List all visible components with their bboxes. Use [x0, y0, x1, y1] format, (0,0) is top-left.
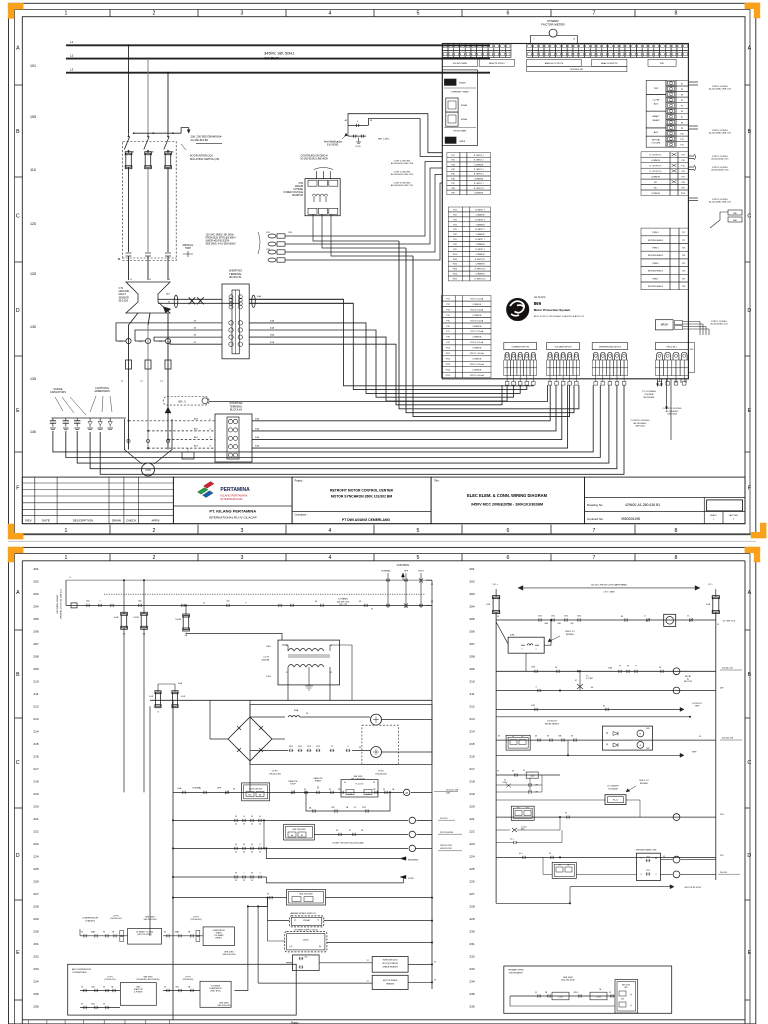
svg-text:7: 7 [593, 555, 596, 561]
svg-text:P56: P56 [453, 234, 456, 236]
multilin 869 box start [242, 783, 270, 801]
svg-text:W: W [168, 302, 170, 304]
svg-text:A1-260-616A2 LINE #209: A1-260-616A2 LINE #209 [300, 158, 328, 161]
svg-text:2-124: 2-124 [558, 996, 563, 998]
svg-text:(MOTOR SYNC): (MOTOR SYNC) [137, 934, 151, 936]
svg-text:COMMON: COMMON [476, 274, 485, 276]
CT ground-fault sensor funnel [126, 282, 170, 313]
surge arrester bus [52, 417, 127, 419]
primary instrument box [504, 966, 672, 1013]
svg-text:F12: F12 [526, 808, 529, 810]
svg-text:8: 8 [675, 11, 678, 17]
svg-text:219: 219 [33, 792, 38, 796]
surge capacitor bank [52, 418, 54, 421]
coil rung 222 [409, 817, 415, 823]
svg-text:221: 221 [469, 817, 474, 821]
svg-text:219: 219 [469, 792, 474, 796]
svg-text:216: 216 [469, 755, 474, 759]
svg-text:P15: P15 [681, 166, 684, 168]
node bus tap L3 [167, 72, 169, 74]
op-amp U1 relay 869 outline [442, 44, 688, 379]
svg-text:A: A [16, 590, 20, 596]
bridge rectifier BR1 [228, 717, 272, 761]
svg-text:P10: P10 [680, 134, 683, 136]
svg-text:TRIP: TRIP [185, 246, 191, 250]
node bus tap L2 [147, 58, 149, 60]
relay left terminal group 1 [447, 153, 460, 158]
svg-text:LOADING: LOADING [85, 919, 95, 922]
transformer CVT2 box [278, 640, 340, 685]
svg-text:E: E [16, 950, 20, 956]
svg-text:PSU: PSU [660, 63, 665, 65]
svg-text:231: 231 [33, 942, 38, 946]
instrument wiring row [510, 995, 615, 997]
svg-text:208,212,228,: 208,212,228, [440, 845, 453, 847]
svg-text:A: A [748, 45, 752, 51]
svg-text:228: 228 [469, 905, 474, 909]
svg-text:47A: 47A [270, 341, 274, 344]
seal-in sub rung [306, 792, 390, 811]
svg-text:P59: P59 [453, 249, 456, 251]
svg-text:P57: P57 [453, 239, 456, 241]
svg-text:RTD 5 / DCmA: RTD 5 / DCmA [471, 319, 484, 322]
svg-text:A1-260-6H8O: A1-260-6H8O [666, 410, 679, 413]
svg-text:P1: P1 [681, 83, 683, 85]
terminal VS2 [268, 242, 276, 246]
svg-text:RELAY RESET: RELAY RESET [545, 722, 560, 725]
svg-text:BLOCK #1: BLOCK #1 [230, 276, 243, 279]
svg-text:27M: 27M [299, 183, 304, 185]
svg-text:P25: P25 [682, 263, 685, 265]
svg-text:P711: P711 [446, 353, 450, 355]
svg-text:7: 7 [593, 528, 596, 534]
svg-text:VOLTAGE INPUTS: VOLTAGE INPUTS [555, 345, 573, 348]
wires VS to relay group1 [285, 162, 442, 237]
svg-text:0-14: 0-14 [366, 793, 369, 795]
air compressor convertible box [68, 964, 297, 1015]
wire fuse to contactor [128, 167, 130, 252]
multilin869 box row227 [287, 889, 326, 905]
svg-text:D: D [16, 853, 20, 859]
svg-text:RETROFIT MOTOR CONTROL CENTER: RETROFIT MOTOR CONTROL CENTER [330, 489, 394, 493]
svg-text:20A, 200 SEE DRAWING#: 20A, 200 SEE DRAWING# [191, 135, 222, 139]
svg-text:R. INPUT 8: R. INPUT 8 [474, 188, 484, 190]
rung 209 [496, 670, 716, 672]
svg-text:1: 1 [65, 555, 68, 561]
svg-text:LED425,236: LED425,236 [440, 848, 452, 850]
relay right output group B [641, 152, 670, 158]
svg-text:Contract No: Contract No [587, 517, 603, 521]
wire to transformer [186, 633, 282, 641]
svg-text:LOA: LOA [177, 787, 182, 790]
svg-text:REMOTE: REMOTE [289, 781, 299, 783]
svg-text:101: 101 [30, 64, 36, 68]
heater terminal box [187, 448, 189, 452]
svg-text:(TYP): (TYP) [113, 916, 119, 918]
svg-text:P6: P6 [344, 782, 346, 784]
svg-text:206,209,218: 206,209,218 [722, 738, 734, 740]
isolating switch dashed enclosure [123, 142, 177, 261]
svg-text:COMMON: COMMON [472, 326, 481, 328]
svg-text:H6: H6 [259, 794, 261, 796]
svg-text:P52: P52 [453, 214, 456, 216]
rail3 components [71, 603, 77, 608]
svg-text:DIVIDER: DIVIDER [645, 394, 654, 396]
svg-text:50A: 50A [257, 295, 261, 298]
svg-text:COMMON: COMMON [474, 178, 483, 180]
svg-text:260,201: 260,201 [720, 872, 728, 874]
svg-text:16: 16 [251, 852, 253, 854]
svg-text:P515: P515 [453, 279, 457, 281]
svg-text:D: D [747, 308, 751, 314]
svg-text:CKT #18/M: CKT #18/M [603, 592, 614, 594]
rung 224-225 dresser rand [496, 856, 716, 858]
svg-text:3: 3 [241, 528, 244, 534]
svg-text:P37: P37 [451, 183, 454, 185]
svg-text:R. OUTPUT 2: R. OUTPUT 2 [650, 155, 662, 157]
border frame band [15, 10, 751, 534]
running indicator branch [266, 848, 400, 858]
svg-text:NET 1-SEC.: NET 1-SEC. [378, 139, 390, 141]
svg-text:AC BUS: AC BUS [264, 55, 279, 60]
svg-text:NORMAL: NORMAL [193, 787, 203, 790]
relay right output group A [666, 80, 676, 86]
svg-text:C: C [747, 213, 751, 219]
svg-text:205: 205 [469, 617, 474, 621]
svg-text:TO PANEL: TO PANEL [338, 598, 349, 601]
svg-text:140: 140 [30, 430, 36, 434]
svg-text:E: E [748, 408, 752, 414]
wires UV monitor bottom [313, 214, 399, 241]
svg-text:J: J [260, 872, 261, 874]
svg-text:TEST: TEST [418, 571, 424, 573]
wire airpax to right rail [324, 920, 432, 922]
svg-text:46A: 46A [270, 334, 274, 337]
wire L2 drop [147, 59, 149, 134]
under-voltage monitor 27M [305, 179, 340, 216]
svg-text:CONVERTIBLE: CONVERTIBLE [72, 972, 87, 974]
svg-text:120: 120 [30, 222, 36, 226]
svg-text:P712: P712 [446, 359, 450, 361]
svg-text:REMOTE RTD/IO: REMOTE RTD/IO [489, 63, 505, 65]
svg-text:233: 233 [33, 967, 38, 971]
wire control rail 3 [66, 604, 432, 606]
svg-text:H5: H5 [301, 835, 303, 837]
coil rung 211 [673, 687, 680, 694]
wire left rails page2 [123, 628, 125, 793]
wire 50s to heater1 [319, 962, 372, 964]
svg-text:DRESSER RAND / BM: DRESSER RAND / BM [636, 849, 657, 852]
svg-text:COMMON: COMMON [472, 315, 481, 317]
svg-text:BLK: BLK [194, 437, 199, 439]
svg-text:234: 234 [469, 980, 474, 984]
svg-text:#A1-200-614G: #A1-200-614G [143, 918, 157, 921]
wire 24vdc to right rail [327, 942, 432, 944]
svg-text:OFF: OFF [217, 788, 222, 790]
current transformer T2 [145, 360, 151, 369]
svg-text:ISOLATING SWITCH (IS): ISOLATING SWITCH (IS) [190, 157, 220, 161]
svg-text:230: 230 [469, 930, 474, 934]
svg-text:E: E [16, 408, 20, 414]
svg-text:226: 226 [33, 880, 38, 884]
svg-text:230: 230 [33, 930, 38, 934]
svg-text:P17: P17 [681, 177, 684, 179]
svg-text:E3LAN: E3LAN [461, 104, 468, 107]
svg-text:R. INPUT 7: R. INPUT 7 [475, 239, 485, 241]
svg-text:236: 236 [469, 1005, 474, 1009]
arrow on funnel [163, 307, 171, 314]
terminal VS1 [268, 234, 276, 238]
svg-text:235: 235 [33, 992, 38, 996]
svg-text:COMMON: COMMON [472, 359, 481, 361]
svg-text:43: 43 [663, 856, 665, 858]
GE multilin logo [507, 298, 529, 320]
svg-text:MULTILIN 869: MULTILIN 869 [249, 789, 263, 791]
svg-text:LINE 4022: LINE 4022 [635, 426, 646, 428]
svg-text:ELEC ELEM. & CONN. WIRING DIAG: ELEC ELEM. & CONN. WIRING DIAGRAM [467, 493, 548, 498]
svg-text:DOOR INTERLOCK: DOOR INTERLOCK [190, 154, 214, 158]
svg-text:R. OUTPUT 4: R. OUTPUT 4 [650, 171, 662, 173]
svg-text:223: 223 [469, 842, 474, 846]
svg-text:INTERNASIONAL: INTERNASIONAL [220, 497, 243, 501]
svg-text:M: M [359, 601, 361, 603]
rung 214-215 multilin rio [496, 739, 716, 741]
relay modbus sub strip [527, 66, 627, 71]
svg-text:125: 125 [30, 272, 36, 276]
svg-text:CR4: CR4 [646, 856, 649, 858]
svg-text:52A: 52A [178, 682, 182, 685]
page separator line [8, 540, 756, 542]
svg-text:B: B [16, 672, 20, 678]
svg-text:215,225: 215,225 [440, 818, 448, 820]
svg-text:P32: P32 [451, 160, 454, 162]
svg-text:P72: P72 [446, 304, 449, 306]
lightning arrester bank [89, 418, 91, 422]
svg-text:SPACE HEATER: SPACE HEATER [383, 965, 399, 968]
svg-text:P4: P4 [681, 100, 683, 102]
svg-text:UNDER-VOLTAGE: UNDER-VOLTAGE [284, 191, 304, 194]
svg-text:P27: P27 [682, 278, 685, 280]
svg-text:PT DWI AGUNG CEMERLANG: PT DWI AGUNG CEMERLANG [342, 518, 390, 522]
svg-text:225: 225 [469, 867, 474, 871]
svg-text:PWM 5: PWM 5 [652, 248, 658, 250]
svg-text:LOCKOUT: LOCKOUT [547, 721, 558, 723]
svg-text:224: 224 [469, 855, 474, 859]
svg-text:SEE DWG: SEE DWG [563, 977, 573, 979]
svg-text:ANALOG INPUTS: ANALOG INPUTS [601, 62, 618, 65]
svg-text:236: 236 [33, 1005, 38, 1009]
svg-text:A: A [748, 590, 752, 596]
svg-text:A51-260-614F: A51-260-614F [561, 979, 575, 982]
svg-text:6: 6 [507, 555, 510, 561]
svg-text:42 READY TO LOA: 42 READY TO LOA [136, 930, 153, 933]
svg-text:LAST SHT: LAST SHT [729, 514, 739, 517]
svg-text:P51: P51 [453, 210, 456, 212]
svg-text:220: 220 [469, 805, 474, 809]
relay right pwm group C [641, 228, 670, 236]
svg-text:AIRPAX SPEED SWITCH: AIRPAX SPEED SWITCH [290, 912, 316, 915]
wire rail drop right [431, 580, 433, 605]
svg-text:SHEET: SHEET [710, 515, 717, 517]
svg-text:COMMON: COMMON [476, 224, 485, 226]
svg-text:B: B [748, 129, 752, 135]
svg-text:206: 206 [33, 630, 38, 634]
relay top label cells [442, 59, 477, 66]
svg-text:2: 2 [153, 555, 156, 561]
svg-text:#A1-200-614G: #A1-200-614G [217, 1004, 231, 1007]
svg-text:201: 201 [33, 567, 38, 571]
svg-text:ETHERNET / FIBER: ETHERNET / FIBER [451, 91, 469, 93]
svg-text:FIELD 86-1: FIELD 86-1 [667, 346, 678, 348]
svg-text:COMMON: COMMON [474, 193, 483, 195]
svg-text:VIRTUAL: VIRTUAL [652, 139, 661, 142]
svg-text:(TYP): (TYP) [378, 771, 384, 773]
svg-text:P78: P78 [446, 337, 449, 339]
wire phase drops below CT [129, 313, 139, 325]
rung 227 multilin [173, 897, 287, 899]
svg-text:P19: P19 [681, 187, 684, 189]
svg-text:CVT2: CVT2 [263, 657, 269, 659]
wire fuse to contactor [167, 167, 169, 252]
svg-text:COMMON: COMMON [472, 304, 481, 306]
svg-text:229: 229 [33, 917, 38, 921]
svg-text:6: 6 [641, 874, 642, 876]
svg-text:P76: P76 [446, 326, 449, 328]
leader lines to devices [55, 397, 86, 415]
fuse 4-GB [123, 580, 125, 614]
svg-text:222: 222 [33, 830, 38, 834]
svg-text:LOR: LOR [531, 705, 536, 707]
svg-text:P511: P511 [453, 259, 457, 261]
svg-text:COMMON: COMMON [651, 193, 660, 195]
svg-text:P5: P5 [681, 106, 683, 108]
rung 217 stub [567, 740, 569, 755]
svg-text:PERTAMINA: PERTAMINA [220, 487, 250, 493]
svg-text:P33: P33 [451, 164, 454, 166]
rung 212 lockout [496, 708, 680, 710]
dresser box [636, 853, 660, 880]
svg-text:FIELD TO: FIELD TO [639, 780, 649, 782]
svg-text:204: 204 [33, 605, 38, 609]
svg-text:STOP: STOP [408, 878, 414, 880]
wire row 227 to right rail [326, 897, 433, 899]
compressor row 2 [163, 990, 200, 992]
svg-text:COMMON: COMMON [651, 177, 660, 179]
wire 52A rung [150, 699, 432, 701]
svg-text:ANALOG OUTPUTS: ANALOG OUTPUTS [545, 62, 564, 65]
transformer CVT2 windings [288, 649, 324, 652]
svg-text:R. INPUT 15: R. INPUT 15 [475, 279, 486, 281]
svg-text:3: 3 [241, 555, 244, 561]
wires MRZM exits [683, 321, 701, 323]
svg-text:5: 5 [641, 858, 642, 860]
svg-text:235: 235 [469, 992, 474, 996]
svg-text:DC UNDER: DC UNDER [608, 786, 619, 788]
svg-text:A1-260-616B2 #216: A1-260-616B2 #216 [712, 169, 729, 172]
relay coil circle 2 [371, 747, 382, 758]
svg-text:1: 1 [536, 649, 537, 651]
corner mark page1 bottom-right [751, 523, 767, 539]
svg-text:DIFFERENTIAL INPUTS: DIFFERENTIAL INPUTS [599, 345, 622, 348]
svg-text:R. INPUT 5: R. INPUT 5 [475, 229, 485, 231]
relay bottom differential inputs group [592, 343, 627, 350]
svg-text:P54: P54 [453, 224, 456, 226]
svg-text:P31: P31 [451, 155, 454, 157]
svg-text:R. INPUT 5: R. INPUT 5 [474, 174, 484, 176]
svg-text:NORMAL: NORMAL [381, 570, 391, 573]
svg-text:222: 222 [469, 830, 474, 834]
svg-text:19: 19 [243, 880, 245, 882]
wires CT donuts to STB1 [116, 323, 222, 341]
svg-text:L3: L3 [70, 67, 74, 71]
wire dashed interlock link [123, 257, 177, 259]
svg-text:AUX: AUX [654, 131, 659, 134]
svg-text:A1-260-616B2 LINE #220: A1-260-616B2 LINE #220 [709, 132, 731, 135]
svg-text:20: 20 [235, 880, 237, 882]
corner mark page2 top-right [745, 547, 761, 563]
svg-text:P715: P715 [446, 375, 450, 377]
shorting terminal block #1 [222, 284, 249, 359]
svg-text:SEE DWG: SEE DWG [219, 1003, 229, 1005]
svg-text:P513: P513 [453, 269, 457, 271]
svg-text:#A1-200-614G: #A1-200-614G [222, 953, 236, 956]
svg-text:B: B [748, 672, 752, 678]
svg-text:66: 66 [591, 687, 593, 689]
svg-text:MONITOR: MONITOR [292, 195, 303, 197]
heater label box 1 [372, 957, 408, 973]
svg-text:201: 201 [469, 567, 474, 571]
svg-text:CONTROL: CONTROL [397, 563, 410, 567]
svg-text:TRIP: TRIP [695, 706, 700, 708]
svg-text:PRIMARY PM50: PRIMARY PM50 [508, 969, 524, 972]
svg-text:CKT #12: CKT #12 [339, 604, 348, 606]
coil rung 223 [409, 831, 415, 837]
lubricator box [203, 927, 234, 946]
svg-text:FLASH: FLASH [459, 82, 466, 85]
svg-text:DIG.IN POWER: DIG.IN POWER [453, 63, 468, 65]
wire bundle UV drops to voltage inputs [399, 241, 579, 409]
svg-text:P7: P7 [681, 117, 683, 119]
svg-text:P12: P12 [680, 145, 683, 147]
svg-text:MULTILIN 869: MULTILIN 869 [293, 829, 307, 831]
svg-text:2-5B: 2-5B [486, 604, 491, 606]
svg-text:C: C [16, 760, 20, 766]
svg-text:P73: P73 [446, 309, 449, 311]
svg-text:(TB-260-.B1): (TB-260-.B1) [105, 979, 116, 981]
svg-text:P6: P6 [681, 111, 683, 113]
svg-text:R. INPUT 7: R. INPUT 7 [474, 183, 484, 185]
svg-text:P38: P38 [451, 188, 454, 190]
title block drawing number cell [585, 477, 746, 524]
ready to load box [128, 928, 162, 944]
svg-text:50A: 50A [255, 436, 259, 439]
wires dc uv relay [496, 799, 605, 801]
svg-text:2: 2 [153, 528, 156, 534]
compressor loading row 1 [80, 935, 128, 937]
svg-text:Project :: Project : [295, 480, 304, 483]
svg-text:BLOCK #2: BLOCK #2 [230, 409, 243, 412]
svg-text:AMSUB: AMSUB [295, 185, 304, 188]
svg-text:TO VOLTAGE: TO VOLTAGE [642, 390, 656, 393]
svg-text:RTD 15 / DCmA: RTD 15 / DCmA [470, 374, 484, 377]
svg-text:VOLTAGE: VOLTAGE [608, 787, 618, 790]
svg-text:213: 213 [469, 717, 474, 721]
svg-text:P39: P39 [451, 193, 454, 195]
title block company cell [173, 477, 292, 524]
svg-text:P35: P35 [451, 174, 454, 176]
svg-text:105: 105 [30, 115, 36, 119]
svg-text:K9A: K9A [294, 709, 299, 712]
